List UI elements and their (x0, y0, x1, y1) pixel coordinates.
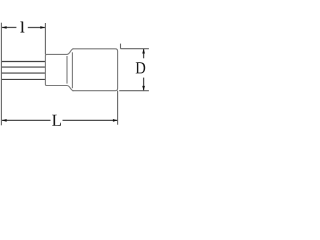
right extension line of dimension l (44, 23, 46, 54)
nose-to-body transition curve bottom (67, 86, 74, 91)
dimension line L (right segment) (63, 119, 118, 121)
arrowhead L left (2, 119, 7, 122)
label l (21, 22, 25, 33)
hex bit line 1 (top silhouette) (1, 61, 45, 63)
hex bit line 2 (upper facet edge) (1, 66, 45, 68)
dimension line l (right segment) (28, 26, 45, 28)
D top extension line (121, 48, 149, 50)
arrowhead l right (40, 26, 45, 29)
dimension line D (upper segment) (143, 49, 145, 58)
dimension line l (left segment) (2, 26, 17, 28)
hex bit line 3 (lower facet edge) (1, 72, 45, 74)
D top extension tick (120, 44, 122, 49)
left extension line (bit tip) (0, 23, 2, 126)
D bottom extension line (119, 90, 149, 92)
label L (52, 115, 61, 126)
nose-to-body transition curve top (67, 49, 74, 55)
arrowhead D up (142, 49, 145, 54)
socket body outline (72, 49, 117, 91)
dimension line D (lower segment) (143, 78, 145, 91)
body front face edge (71, 52, 73, 88)
arrowhead l left (2, 26, 7, 29)
arrowhead L right (113, 119, 118, 122)
hex bit line 4 (bottom silhouette) (1, 78, 45, 80)
label D (136, 62, 145, 73)
arrowhead D down (142, 86, 145, 91)
tangent edge line at nose end (66, 56, 68, 84)
dimension line L (left segment) (2, 119, 51, 121)
socket nose outline (45, 54, 67, 85)
right extension line of dimension L (117, 91, 119, 125)
